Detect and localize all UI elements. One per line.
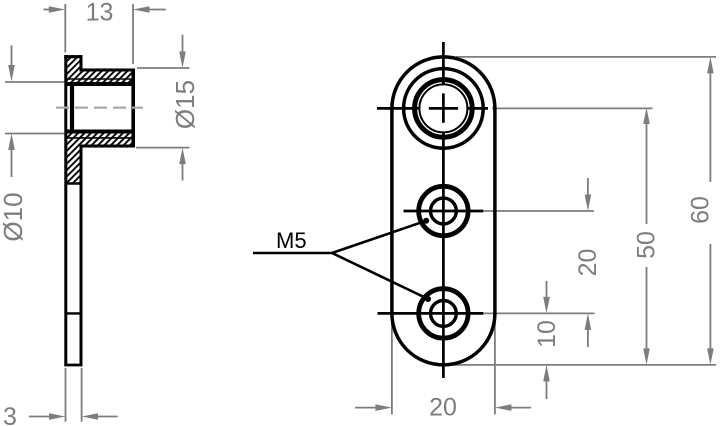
dim 13 ext line left <box>64 4 66 53</box>
vertical centerline lower <box>442 132 445 378</box>
bore circle D10 <box>415 80 473 138</box>
bottom hole crosshair <box>378 312 484 315</box>
svg-text:M5: M5 <box>276 228 307 253</box>
ext line bottom hole center <box>484 312 595 314</box>
plate bottom edge <box>64 364 82 367</box>
bore top chamfer line <box>66 78 131 80</box>
dim 60 bottom arrow <box>707 348 714 365</box>
dim D15 ext line bottom <box>136 147 190 149</box>
dim 20 width left arrow <box>355 404 392 411</box>
boss bottom outline <box>80 145 135 148</box>
dim D15 bottom arrow <box>179 148 186 181</box>
section hatch: plate upper <box>64 55 82 86</box>
svg-text:20: 20 <box>429 394 457 422</box>
dim 20 width right arrow <box>495 404 531 411</box>
section hatch: plate below bore <box>64 130 82 184</box>
dim D10 bottom arrow <box>8 134 15 178</box>
bore bottom line <box>65 130 133 134</box>
boss top outline <box>80 69 135 72</box>
svg-text:20: 20 <box>574 249 602 277</box>
dim D15 ext line top <box>137 67 190 69</box>
dim 13 ext line right <box>132 4 134 64</box>
M5 leader horizontal <box>253 252 332 255</box>
dim 50 bottom arrow <box>643 348 650 365</box>
section hatch: boss bottom wall <box>82 130 134 148</box>
svg-text:13: 13 <box>86 0 114 27</box>
plate left edge <box>64 55 67 366</box>
ext line middle hole center <box>484 210 594 212</box>
top hole center plus <box>429 107 458 110</box>
bore top line <box>65 82 133 86</box>
svg-text:10: 10 <box>533 320 561 348</box>
dim 3 left arrow <box>29 413 66 420</box>
boss centerline <box>56 106 143 108</box>
plate right edge upper <box>80 55 83 71</box>
dim 60 line upper <box>709 73 711 183</box>
dim 13 left arrow <box>44 6 66 13</box>
bottom hole inner circle <box>431 301 457 327</box>
svg-text:60: 60 <box>687 196 715 224</box>
vertical centerline upper <box>442 42 445 85</box>
plate top edge <box>64 55 82 58</box>
ext line plate left bottom <box>391 316 393 414</box>
dim 20 vert top arrow <box>585 178 592 211</box>
ext line top hole center <box>492 107 653 109</box>
middle hole crosshair <box>404 210 484 213</box>
bore chamfer circle <box>419 84 467 132</box>
svg-text:50: 50 <box>633 231 661 259</box>
dim 50 top arrow <box>643 108 650 125</box>
dim D10 ext line top <box>5 81 64 83</box>
dim 3 ext line left <box>65 368 67 422</box>
svg-text:Ø15: Ø15 <box>170 80 200 129</box>
plate step line A <box>65 182 83 184</box>
plate obround outline <box>392 57 495 365</box>
dim 13 right arrow <box>133 6 166 13</box>
M5 leader dot bottom <box>425 296 431 302</box>
dim 3 ext line right <box>81 368 83 422</box>
bore mouth edge <box>70 84 74 132</box>
plate right edge lower <box>80 145 83 366</box>
top hole crosshair left <box>377 107 419 110</box>
middle hole outer circle <box>419 186 468 235</box>
ext line top edge <box>456 56 716 58</box>
plate step line B <box>65 312 83 314</box>
dim 50 line upper <box>646 123 648 224</box>
middle hole inner circle <box>431 198 457 224</box>
dim 3 right arrow <box>82 413 118 420</box>
dim 60 line lower <box>709 244 711 350</box>
vertical center plus <box>442 93 445 122</box>
M5 leader to middle hole <box>332 221 426 253</box>
svg-text:Ø10: Ø10 <box>0 192 28 241</box>
dim 10 top arrow <box>543 281 550 313</box>
dim 60 top arrow <box>707 57 714 74</box>
section hatch: boss top wall <box>82 68 134 86</box>
boss end face <box>131 69 135 148</box>
M5 leader to bottom hole <box>332 253 428 299</box>
ext line bottom edge <box>451 364 716 366</box>
bore bottom chamfer line <box>66 137 131 139</box>
M5 leader dot middle <box>423 218 429 224</box>
bottom hole outer circle <box>419 289 468 338</box>
dim 20 vert bottom arrow <box>585 313 592 347</box>
dim 50 line lower <box>646 267 648 350</box>
top hole crosshair right <box>467 107 488 110</box>
boss circle D15 <box>404 69 484 149</box>
dim 10 bottom arrow <box>543 365 550 399</box>
dim D15 top arrow <box>179 35 186 68</box>
dim D10 ext line bottom <box>5 133 64 135</box>
ext line plate right bottom <box>494 316 496 414</box>
svg-text:3: 3 <box>3 403 17 426</box>
dim D10 top arrow <box>8 46 15 82</box>
